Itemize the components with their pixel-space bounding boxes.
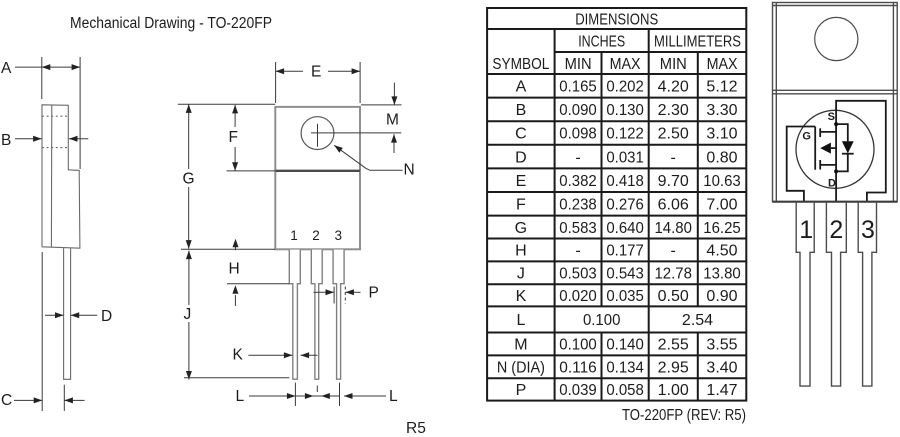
stub top (820, 131, 836, 133)
channel segment top (819, 128, 821, 137)
svg-text:MAX: MAX (610, 56, 641, 73)
svg-text:2.95: 2.95 (658, 360, 689, 377)
table grid (487, 8, 746, 401)
svg-text:3: 3 (861, 216, 875, 244)
extension line right (A) (79, 57, 81, 169)
svg-text:F: F (229, 129, 238, 146)
svg-text:J: J (184, 306, 192, 323)
svg-text:6.06: 6.06 (658, 197, 689, 214)
svg-text:L: L (236, 388, 245, 405)
channel segment bottom (819, 160, 821, 170)
svg-text:MAX: MAX (707, 56, 738, 73)
svg-text:1: 1 (290, 228, 298, 243)
svg-text:A: A (1, 60, 12, 77)
svg-text:-: - (575, 243, 580, 260)
svg-text:L: L (516, 312, 525, 329)
svg-text:0.583: 0.583 (559, 220, 597, 237)
gate bar (814, 127, 816, 170)
svg-text:2: 2 (312, 228, 320, 243)
svg-text:2: 2 (829, 216, 843, 244)
side view hidden dotted line upper (42, 115, 68, 117)
svg-text:D: D (515, 149, 527, 166)
svg-text:M: M (514, 337, 527, 354)
svg-text:0.238: 0.238 (559, 197, 597, 214)
svg-text:0.031: 0.031 (606, 149, 644, 166)
E extension lines (276, 62, 361, 103)
svg-text:B: B (1, 132, 11, 149)
side view body outline (42, 105, 80, 248)
svg-text:N: N (404, 162, 415, 179)
mounting hole circle (301, 117, 334, 150)
svg-text:0.035: 0.035 (606, 288, 644, 305)
svg-text:SYMBOL: SYMBOL (492, 56, 549, 73)
svg-text:0.177: 0.177 (606, 243, 644, 260)
svg-text:D: D (101, 308, 112, 325)
diode triangle (842, 141, 854, 153)
svg-text:K: K (233, 347, 244, 364)
pin 2 outline (311, 250, 322, 380)
svg-text:E: E (516, 173, 527, 190)
diode cathode bar (842, 153, 854, 155)
svg-text:DIMENSIONS: DIMENSIONS (575, 12, 658, 29)
svg-text:M: M (386, 112, 399, 129)
svg-text:A: A (516, 79, 527, 96)
svg-text:0.202: 0.202 (606, 79, 644, 96)
svg-text:-: - (671, 243, 676, 260)
svg-text:0.90: 0.90 (706, 288, 737, 305)
svg-text:H: H (515, 243, 527, 260)
svg-text:0.503: 0.503 (559, 266, 597, 283)
svg-text:INCHES: INCHES (578, 34, 625, 51)
svg-text:3.55: 3.55 (706, 337, 737, 354)
svg-text:0.039: 0.039 (559, 382, 597, 399)
package outer outline (773, 3, 898, 202)
svg-text:P: P (369, 285, 379, 302)
svg-text:0.100: 0.100 (583, 312, 621, 329)
right pin 3 (858, 203, 876, 386)
svg-text:L: L (389, 388, 398, 405)
side view lead (64, 248, 71, 379)
svg-text:0.640: 0.640 (606, 220, 644, 237)
svg-text:3.40: 3.40 (706, 360, 737, 377)
svg-text:-: - (671, 149, 676, 166)
svg-text:0.130: 0.130 (606, 102, 644, 119)
wire: G to pin1 (787, 127, 816, 202)
C extension line right (63, 385, 65, 411)
S node dot (834, 122, 838, 126)
svg-text:0.116: 0.116 (559, 360, 597, 377)
svg-text:0.382: 0.382 (559, 173, 597, 190)
svg-text:4.20: 4.20 (658, 79, 689, 96)
svg-text:0.276: 0.276 (606, 197, 644, 214)
svg-text:R5: R5 (406, 420, 426, 437)
svg-text:G: G (183, 171, 195, 188)
svg-text:C: C (515, 126, 527, 143)
svg-text:0.165: 0.165 (559, 79, 597, 96)
front view tab separator line (275, 170, 360, 172)
L extension lines (294, 383, 296, 406)
svg-text:J: J (517, 266, 525, 283)
stub bottom (820, 164, 836, 166)
body diode branch (836, 124, 848, 171)
side view inner tab line (50, 105, 52, 248)
svg-text:0.543: 0.543 (606, 266, 644, 283)
inner edge lines (773, 3, 898, 202)
svg-text:3.30: 3.30 (706, 102, 737, 119)
svg-text:0.098: 0.098 (559, 126, 597, 143)
body bottom line (773, 201, 898, 203)
svg-text:D: D (828, 178, 836, 190)
pin 3 outline (333, 250, 344, 380)
svg-text:13.80: 13.80 (703, 266, 741, 283)
right pin 1 (796, 203, 814, 386)
svg-text:F: F (516, 197, 526, 214)
svg-text:7.00: 7.00 (706, 197, 737, 214)
svg-text:MIN: MIN (660, 56, 687, 73)
svg-text:0.80: 0.80 (706, 149, 737, 166)
svg-text:Mechanical Drawing - TO-220FP: Mechanical Drawing - TO-220FP (70, 15, 272, 32)
svg-text:1.00: 1.00 (658, 382, 689, 399)
svg-text:TO-220FP (REV: R5): TO-220FP (REV: R5) (622, 407, 746, 424)
svg-text:S: S (828, 111, 835, 123)
svg-text:G: G (515, 220, 527, 237)
wire: center S-D axis to pin2 (835, 124, 837, 202)
svg-text:4.50: 4.50 (706, 243, 737, 260)
J extension line (pin bottoms) (184, 377, 289, 379)
svg-text:14.80: 14.80 (654, 220, 692, 237)
pin 1 outline (289, 250, 300, 380)
svg-text:N (DIA): N (DIA) (497, 360, 545, 377)
svg-text:3.10: 3.10 (706, 126, 737, 143)
svg-text:-: - (575, 149, 580, 166)
svg-text:B: B (516, 102, 527, 119)
table texts (492, 12, 741, 400)
source arrow (831, 147, 836, 149)
svg-text:0.090: 0.090 (559, 102, 597, 119)
svg-text:5.12: 5.12 (706, 79, 737, 96)
svg-text:0.020: 0.020 (559, 288, 597, 305)
side view hidden dotted line lower (42, 147, 68, 149)
svg-text:2.55: 2.55 (658, 337, 689, 354)
transistor circle (796, 110, 874, 188)
separator extension line (227, 170, 276, 172)
svg-text:2.30: 2.30 (658, 102, 689, 119)
mounting hole (815, 17, 858, 60)
extension line left (A/C) (41, 57, 43, 99)
svg-text:1.47: 1.47 (706, 382, 737, 399)
top-left extension line (178, 103, 275, 105)
svg-text:16.25: 16.25 (703, 220, 741, 237)
wire: S to top to pin3 (836, 101, 886, 202)
tab bottom double line (773, 90, 898, 94)
P extension lines (333, 287, 335, 304)
svg-text:0.134: 0.134 (606, 360, 644, 377)
svg-text:0.50: 0.50 (658, 288, 689, 305)
svg-text:E: E (311, 64, 321, 81)
svg-text:3: 3 (334, 228, 342, 243)
svg-text:2.50: 2.50 (658, 126, 689, 143)
right pin 2 (826, 203, 846, 386)
svg-text:H: H (229, 261, 240, 278)
dimension L middle arrows (295, 395, 339, 397)
hole cross (311, 124, 401, 147)
front view body (275, 107, 360, 249)
D node dot (834, 169, 838, 173)
svg-text:10.63: 10.63 (703, 173, 741, 190)
svg-text:C: C (1, 392, 12, 409)
M extension top (361, 104, 402, 106)
svg-text:0.140: 0.140 (606, 337, 644, 354)
svg-text:MILLIMETERS: MILLIMETERS (654, 34, 741, 51)
svg-text:K: K (516, 288, 527, 305)
svg-text:2.54: 2.54 (682, 312, 713, 329)
svg-text:MIN: MIN (565, 56, 592, 73)
svg-text:9.70: 9.70 (658, 173, 689, 190)
svg-text:0.122: 0.122 (606, 126, 644, 143)
svg-text:P: P (516, 382, 527, 399)
svg-text:G: G (802, 131, 811, 143)
svg-text:0.058: 0.058 (606, 382, 644, 399)
svg-text:0.100: 0.100 (559, 337, 597, 354)
H extension line (227, 283, 290, 285)
bottom-left extension line (181, 248, 275, 250)
leader to N (334, 145, 402, 170)
svg-text:0.418: 0.418 (606, 173, 644, 190)
svg-text:12.78: 12.78 (654, 266, 692, 283)
svg-text:1: 1 (799, 216, 813, 244)
